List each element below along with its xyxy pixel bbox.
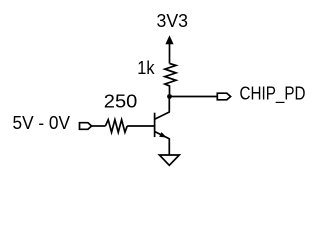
resistor R2 value 250 [105, 120, 127, 133]
wire node to output port [170, 96, 218, 98]
svg-text:250: 250 [104, 91, 138, 111]
wire power arrow to resistor R1 [169, 43, 171, 64]
svg-text:5V - 0V: 5V - 0V [13, 113, 71, 133]
input port 5V - 0V [80, 123, 92, 130]
transistor Q1 emitter (wire down to ground) [155, 132, 170, 156]
svg-text:3V3: 3V3 [157, 11, 189, 31]
wire resistor to base [127, 125, 154, 127]
resistor R1 value 1k [165, 64, 176, 97]
svg-text:1k: 1k [137, 58, 155, 78]
power symbol 3V3 arrow [165, 35, 173, 44]
svg-text:CHIP_PD: CHIP_PD [240, 83, 306, 104]
wire port to resistor [92, 125, 106, 127]
node junction [167, 94, 172, 99]
output port CHIP_PD [217, 93, 230, 100]
transistor Q1 emitter arrowhead [159, 132, 167, 138]
ground [159, 155, 179, 165]
transistor Q1 collector (wire up to node) [155, 97, 170, 120]
transistor Q1 base bar [154, 113, 156, 137]
